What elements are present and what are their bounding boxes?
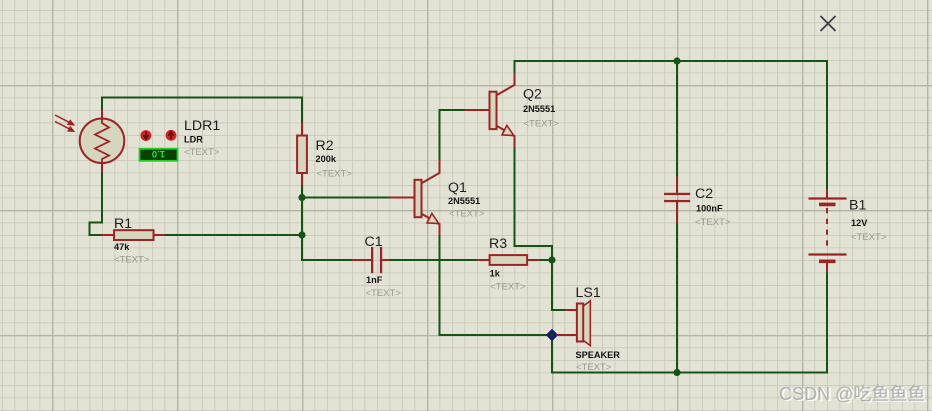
svg-text:CSDN @吃鱼鱼鱼: CSDN @吃鱼鱼鱼 — [779, 384, 925, 404]
wire Q2 emitter down to node C — [515, 148, 553, 261]
ground rail junction dot at C2 — [673, 369, 680, 376]
svg-text:2N5551: 2N5551 — [523, 104, 555, 114]
svg-text:C2: C2 — [695, 186, 713, 202]
LDR1 light arrows — [55, 115, 74, 131]
svg-text:100nF: 100nF — [696, 204, 723, 214]
svg-text:R2: R2 — [316, 138, 334, 154]
capacitor C1 — [352, 247, 390, 273]
svg-text:<TEXT>: <TEXT> — [490, 282, 526, 293]
wire bottom ground rail — [552, 372, 827, 374]
svg-text:SPEAKER: SPEAKER — [576, 350, 621, 360]
svg-text:<TEXT>: <TEXT> — [184, 147, 220, 158]
wire Q1 emitter down to diamond node — [440, 235, 548, 335]
supply rail junction dot at C2 — [673, 57, 680, 64]
svg-text:B1: B1 — [849, 198, 866, 214]
LDR1 down adjust button — [141, 130, 152, 141]
svg-text:C1: C1 — [365, 234, 383, 250]
svg-text:<TEXT>: <TEXT> — [524, 119, 560, 130]
svg-text:R3: R3 — [489, 236, 507, 252]
wire LDR1 bottom to R1 left — [90, 173, 103, 236]
LDR1 labels — [184, 118, 220, 158]
wire R1 right to node B — [165, 234, 303, 236]
svg-text:<TEXT>: <TEXT> — [449, 209, 485, 220]
svg-text:47k: 47k — [114, 242, 130, 252]
wire C1 right to R3 left — [390, 259, 478, 261]
battery B1 — [809, 189, 847, 272]
wire LDR1 top pin — [101, 98, 103, 111]
transistor Q2 — [465, 73, 515, 148]
wire C2 top — [676, 61, 678, 177]
svg-text:LDR: LDR — [184, 135, 203, 145]
transistor Q1 — [390, 160, 440, 235]
svg-text:2N5551: 2N5551 — [448, 196, 480, 206]
svg-text:<TEXT>: <TEXT> — [114, 255, 150, 266]
svg-text:12V: 12V — [851, 218, 868, 228]
wire Q1 collector up to Q2 base — [440, 110, 465, 160]
wire node B down to C1 left — [302, 235, 352, 260]
node A junction dot — [298, 194, 305, 201]
svg-text:R1: R1 — [114, 216, 132, 232]
wire top-right supply rail — [515, 60, 828, 62]
wire B1 bottom — [826, 272, 828, 373]
resistor R2 — [297, 123, 307, 186]
svg-text:1nF: 1nF — [366, 275, 383, 285]
watermark CSDN — [779, 384, 927, 405]
wire node A to node B — [301, 198, 303, 236]
Q1 labels — [448, 180, 485, 220]
Q2 labels — [523, 87, 559, 130]
wire C2 bottom — [676, 224, 678, 373]
C2 labels — [695, 186, 731, 228]
resistor R1 — [102, 230, 165, 240]
node B junction dot — [298, 231, 305, 238]
svg-text:<TEXT>: <TEXT> — [695, 217, 731, 228]
speaker LS1 — [557, 301, 591, 346]
B1 labels — [849, 198, 887, 244]
svg-text:LDR1: LDR1 — [184, 118, 220, 134]
svg-text:Q2: Q2 — [523, 87, 542, 103]
capacitor C2 — [664, 177, 690, 224]
wire node A to Q1 base — [302, 197, 390, 199]
LS1 labels — [576, 285, 621, 373]
wire Q2 collector pin top — [514, 61, 516, 73]
R2 labels — [316, 138, 353, 180]
svg-text:<TEXT>: <TEXT> — [366, 288, 402, 299]
wire B1 top — [826, 61, 828, 189]
wire R2 top pin — [301, 98, 303, 123]
LDR1 up adjust button — [166, 130, 177, 141]
wire node C down to LS1 top pin — [552, 260, 565, 310]
R3 labels — [489, 236, 526, 293]
svg-text:LS1: LS1 — [576, 285, 601, 301]
diamond junction node at LS1 — [547, 330, 558, 341]
wire R2 bottom to node A — [301, 185, 303, 198]
svg-text:Q1: Q1 — [448, 180, 467, 196]
svg-text:200k: 200k — [316, 154, 337, 164]
node C junction dot — [548, 256, 555, 263]
R1 labels — [114, 216, 150, 266]
svg-text:<TEXT>: <TEXT> — [317, 169, 353, 180]
LDR1 photoresistor — [80, 110, 125, 173]
wire diamond node down to ground rail — [551, 340, 553, 373]
svg-text:1k: 1k — [490, 269, 501, 279]
svg-text:1.0: 1.0 — [152, 148, 165, 159]
svg-text:<TEXT>: <TEXT> — [851, 232, 887, 243]
sheet origin X marker — [821, 16, 836, 31]
wire Q2 base from Q1 collector — [440, 109, 465, 111]
wire R3 right to node C — [540, 259, 553, 261]
LDR1 lux display — [140, 148, 178, 161]
wire top-left rail LDR1 to R2 — [102, 97, 302, 99]
resistor R3 — [477, 255, 540, 265]
svg-text:<TEXT>: <TEXT> — [576, 362, 612, 373]
C1 labels — [365, 234, 402, 299]
